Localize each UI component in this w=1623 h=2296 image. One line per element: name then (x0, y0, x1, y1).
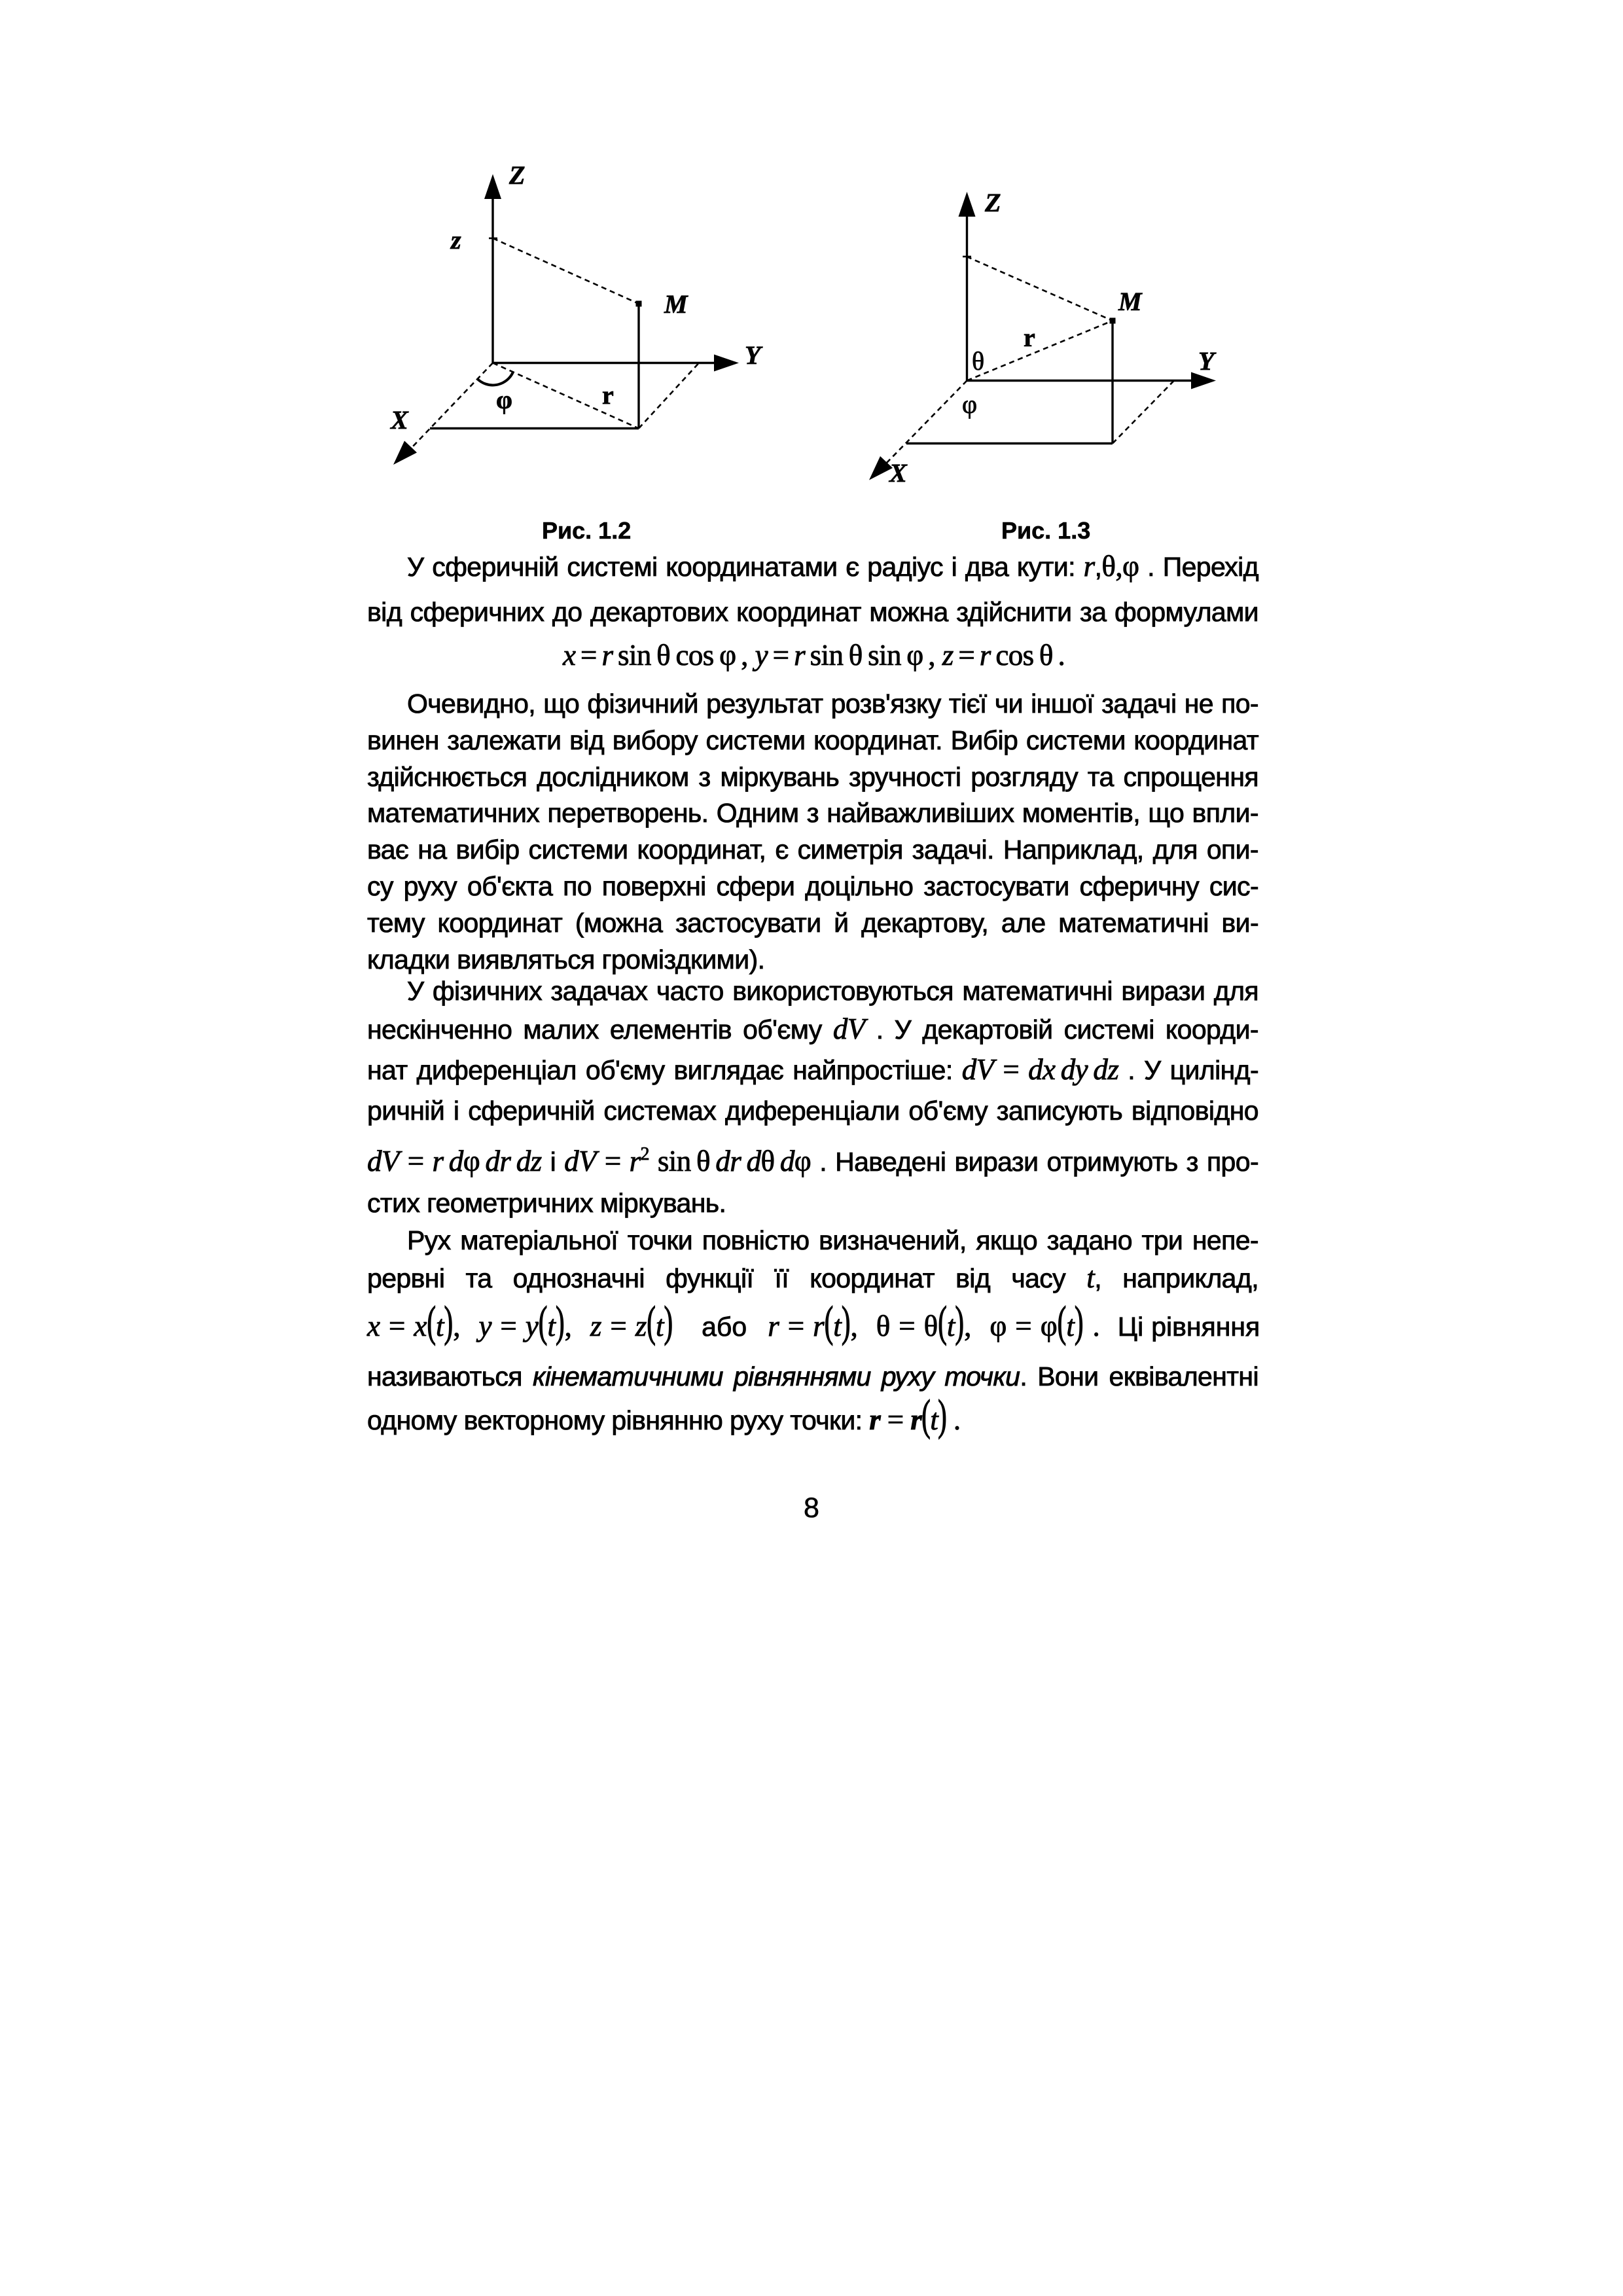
svg-text:X: X (888, 458, 908, 488)
parallelogram bottom side (906, 442, 1113, 445)
svg-text:M: M (664, 289, 688, 319)
paragraph 4 (367, 1222, 1258, 1259)
svg-text:φ: φ (962, 389, 977, 419)
caption Рис. 1.3 (1001, 519, 1090, 543)
dashed line z-level to M (493, 238, 639, 304)
Z axis arrowhead (484, 174, 501, 199)
Y axis line (967, 380, 1213, 382)
formula line 3 (367, 1308, 1258, 1345)
Z axis arrowhead (959, 192, 976, 217)
X axis arrowhead (393, 441, 417, 465)
z intercept tick (489, 238, 497, 240)
point M dot (636, 301, 642, 307)
svg-text:Z: Z (508, 160, 525, 190)
svg-text:θ: θ (972, 346, 984, 376)
paragraph 1 line 2 (367, 594, 1258, 630)
page number (779, 1494, 844, 1522)
Y axis arrowhead (1191, 372, 1216, 389)
paragraph 2 (367, 685, 1258, 722)
Z axis line (966, 213, 968, 381)
svg-text:X: X (389, 405, 409, 435)
svg-text:Y: Y (1198, 346, 1217, 376)
caption Рис. 1.2 (542, 519, 631, 543)
X axis dashed line (886, 381, 967, 464)
Z axis line (491, 195, 493, 363)
dashed line z-level to M (967, 257, 1113, 321)
X axis arrowhead (869, 456, 893, 480)
svg-text:Z: Z (984, 188, 1001, 217)
figure: Рис. 1.2 cylindrical coordinate system diagram (366, 157, 772, 484)
point M dot (1110, 318, 1116, 324)
phi angle arc (477, 372, 513, 386)
formula line 2 (367, 1143, 1258, 1180)
parallelogram bottom side (430, 427, 639, 430)
r dashed line origin to M (967, 321, 1113, 381)
X axis dashed line (412, 363, 493, 448)
r dashed line origin to foot of M (493, 363, 639, 429)
svg-text:Y: Y (745, 340, 763, 370)
Y axis line (493, 362, 736, 364)
parallelogram right dashed side (639, 363, 699, 429)
paragraph 3 (367, 973, 1258, 1009)
vertical line M to xy-plane (637, 304, 639, 429)
svg-text:φ: φ (496, 385, 512, 414)
figure: Рис. 1.3 spherical coordinate system diagram (851, 177, 1243, 497)
parallelogram right dashed side (1113, 381, 1174, 444)
Y axis arrowhead (714, 355, 739, 372)
vertical line M to xy-plane (1111, 321, 1113, 444)
svg-text:z: z (450, 225, 461, 255)
paragraph 1 line 1 (367, 548, 1258, 585)
formula line 1 (563, 637, 1065, 674)
svg-text:r: r (602, 380, 614, 410)
svg-text:r: r (1024, 323, 1035, 352)
z intercept tick (963, 256, 971, 258)
svg-text:M: M (1118, 287, 1143, 316)
